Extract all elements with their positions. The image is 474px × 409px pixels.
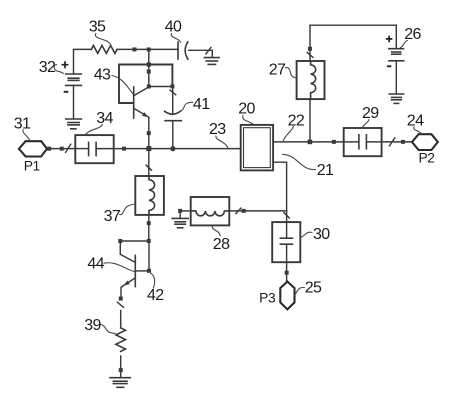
leader 21 bbox=[283, 154, 316, 169]
box of capacitor 34 bbox=[75, 135, 113, 163]
battery 32 bbox=[66, 74, 82, 119]
leader 29 bbox=[362, 120, 369, 128]
wire: node 22 up to box 27 bbox=[309, 25, 311, 142]
svg-text:39: 39 bbox=[84, 317, 101, 334]
leader 39 bbox=[101, 325, 115, 334]
plus sign of battery 26 bbox=[386, 36, 393, 43]
leader 37 bbox=[120, 204, 136, 215]
svg-text:25: 25 bbox=[305, 280, 322, 297]
battery 26 bbox=[389, 49, 404, 94]
box of capacitor 29 bbox=[344, 128, 382, 156]
junction square above box 27 bbox=[308, 47, 312, 51]
leader 44 bbox=[104, 263, 135, 272]
svg-text:20: 20 bbox=[238, 101, 255, 118]
wire: down to capacitor 41 bbox=[172, 88, 174, 114]
wire: collector of 44 up to link bbox=[148, 241, 150, 271]
wire: box 29 to P2 bbox=[382, 141, 412, 143]
leader 43 bbox=[112, 76, 133, 95]
junction square top-B bbox=[147, 47, 151, 51]
leader 31 bbox=[23, 130, 30, 141]
junction dot on box 43 top edge bbox=[146, 62, 151, 67]
junction square after box 34 bbox=[122, 147, 126, 151]
leader 20 bbox=[243, 116, 254, 125]
wire: collector link to right edge bbox=[149, 86, 173, 88]
leader 24 bbox=[414, 127, 422, 134]
junction square right edge node bbox=[170, 84, 174, 88]
box of inductor 37 bbox=[135, 176, 164, 215]
junction dot node 22 bbox=[308, 140, 313, 145]
junction square before P2 bbox=[401, 140, 405, 144]
svg-text:43: 43 bbox=[94, 66, 111, 83]
wire: resistor 39 to ground bbox=[120, 356, 122, 378]
leader 25 bbox=[295, 287, 305, 295]
svg-text:P2: P2 bbox=[418, 151, 434, 166]
svg-text:41: 41 bbox=[193, 96, 210, 113]
break slash above box 27 bbox=[307, 52, 313, 57]
leader 32 bbox=[54, 65, 63, 74]
box of capacitor 30 bbox=[272, 222, 300, 262]
port P1 hexagon 31 bbox=[19, 141, 47, 156]
svg-text:P3: P3 bbox=[259, 291, 276, 306]
svg-text:42: 42 bbox=[147, 287, 164, 304]
capacitor 41 bbox=[165, 111, 182, 149]
junction square before slash bbox=[60, 147, 64, 151]
svg-text:24: 24 bbox=[407, 113, 424, 130]
capacitor 40 bbox=[178, 42, 188, 59]
leader 40 bbox=[171, 34, 180, 43]
minus sign of battery 26 bbox=[387, 65, 391, 67]
leader 27 bbox=[285, 68, 296, 78]
break slash above capacitor 41 bbox=[170, 90, 176, 95]
break slash after box 29 bbox=[389, 138, 394, 146]
port P3 hexagon 25 bbox=[280, 282, 294, 310]
inductor 28 bbox=[191, 211, 230, 216]
junction square on emitter line bbox=[147, 131, 151, 135]
leader 41 bbox=[181, 102, 193, 111]
wire: emitter of 43 down to main wire bbox=[148, 117, 150, 148]
break slash after P1 bbox=[66, 144, 71, 152]
svg-text:21: 21 bbox=[317, 162, 334, 179]
wire: horizontal link above transistor 44 bbox=[120, 240, 149, 242]
svg-text:34: 34 bbox=[96, 110, 113, 127]
wire: box 37 down to transistor 44 net bbox=[148, 215, 150, 241]
junction square left of box 28 bbox=[178, 209, 182, 213]
wire 23: box 34 to box 20 bbox=[114, 148, 241, 150]
junction square after P1 bbox=[47, 147, 51, 151]
box of inductor 28 bbox=[191, 197, 230, 225]
minus sign of battery 32 bbox=[64, 91, 69, 93]
svg-text:37: 37 bbox=[104, 208, 121, 225]
junction square left bbox=[118, 239, 122, 243]
resistor 35 bbox=[91, 45, 117, 53]
box of inductor 27 bbox=[297, 61, 325, 99]
break slash near ground 40 bbox=[206, 48, 211, 54]
svg-text:27: 27 bbox=[269, 61, 286, 78]
svg-text:22: 22 bbox=[288, 113, 305, 130]
svg-text:35: 35 bbox=[89, 19, 106, 36]
junction square right of box 28 bbox=[242, 209, 246, 213]
wire: P1 to box 34 bbox=[47, 148, 75, 150]
junction square below box 37 bbox=[147, 221, 151, 225]
ground (below resistor 39) bbox=[110, 378, 130, 388]
svg-text:P1: P1 bbox=[24, 159, 40, 174]
ground (for box 28) bbox=[172, 213, 188, 228]
inductor 37 bbox=[149, 176, 155, 215]
junction square top-A bbox=[132, 47, 136, 51]
wire: box 30 to P3 bbox=[286, 262, 288, 281]
resistor 39 bbox=[116, 328, 126, 352]
junction square below dot bbox=[147, 70, 151, 74]
svg-text:32: 32 bbox=[39, 59, 56, 76]
ground (for battery 32) bbox=[66, 119, 82, 129]
feedback box around transistor 43 bbox=[119, 65, 172, 104]
leader 28 bbox=[212, 226, 220, 236]
wire: top node down into box 43 bbox=[148, 49, 150, 86]
svg-text:30: 30 bbox=[313, 226, 330, 243]
wire: resistor 35 to capacitor 40 bbox=[117, 48, 178, 50]
junction square above ground 39 bbox=[119, 368, 123, 372]
leader 22 bbox=[283, 127, 293, 142]
svg-text:31: 31 bbox=[14, 115, 31, 132]
wire: capacitor 40 to ground bbox=[189, 50, 213, 57]
junction square right bbox=[147, 239, 151, 243]
junction square collector 44 bbox=[147, 269, 151, 273]
wire: battery 32 top to resistor 35 bbox=[74, 49, 92, 74]
wire: box 28 to node 21 line bbox=[229, 210, 286, 212]
wire: to resistor 39 bbox=[120, 311, 122, 328]
port P2 hexagon 24 bbox=[412, 134, 438, 150]
junction square (large) on main wire bbox=[146, 146, 151, 151]
wire 21: box 20 lower output to box 30 bbox=[273, 162, 287, 222]
box 20 (double border) bbox=[241, 125, 273, 170]
junction dot capacitor 41 on wire 23 bbox=[170, 146, 175, 151]
ground (for capacitor 40) bbox=[204, 58, 219, 65]
junction square above P3 bbox=[285, 271, 289, 275]
wire: emitter 44 down bbox=[121, 286, 123, 300]
svg-text:29: 29 bbox=[362, 105, 379, 122]
transistor 44 bbox=[123, 255, 149, 286]
leader 26 bbox=[400, 41, 407, 48]
capacitor 34 bbox=[75, 142, 113, 155]
leader 30 bbox=[301, 232, 313, 237]
junction square before box 29 bbox=[332, 140, 336, 144]
wire: ground side of box 28 bbox=[182, 210, 191, 212]
wire 22: box 20 to box 29 bbox=[273, 141, 344, 143]
leader 42 bbox=[150, 273, 154, 288]
leader 35 bbox=[95, 34, 111, 47]
leader 23 bbox=[216, 136, 228, 148]
svg-text:40: 40 bbox=[165, 19, 182, 36]
break slash right of box 28 bbox=[236, 208, 241, 213]
break slash above resistor 39 bbox=[117, 302, 123, 307]
break slash above box 37 bbox=[146, 165, 151, 170]
svg-text:28: 28 bbox=[213, 236, 230, 253]
wire: top rail to battery 26 bbox=[310, 25, 396, 49]
break slash above box 30 bbox=[284, 213, 290, 218]
svg-text:44: 44 bbox=[87, 256, 104, 273]
wire: base lead of transistor 44 bbox=[120, 241, 135, 262]
inductor 27 bbox=[311, 61, 316, 99]
junction square above slash bbox=[119, 297, 123, 301]
capacitor 30 bbox=[280, 222, 292, 262]
wire: spine down to box 37 bbox=[148, 149, 150, 176]
plus sign of battery 32 bbox=[62, 61, 69, 68]
ground (below battery 26) bbox=[389, 94, 403, 103]
junction square collector node bbox=[147, 85, 151, 89]
leader 34 bbox=[86, 125, 103, 135]
svg-text:23: 23 bbox=[209, 121, 226, 138]
transistor 43 bbox=[134, 87, 149, 118]
capacitor 29 bbox=[344, 135, 382, 149]
